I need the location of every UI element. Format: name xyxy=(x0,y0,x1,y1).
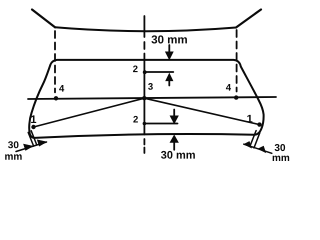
level-2 tick upper xyxy=(144,71,173,73)
label 1 left xyxy=(31,115,36,123)
left corner edge tail lines xyxy=(28,131,36,146)
right dashed pillar projection xyxy=(236,30,238,92)
roof line (top curve) xyxy=(55,27,236,31)
upper dimension up arrow xyxy=(166,74,173,86)
windscreen outline xyxy=(29,60,263,138)
right corner edge tail lines xyxy=(250,131,259,148)
left A-pillar whisker xyxy=(32,10,55,28)
label 4 right xyxy=(226,84,231,91)
point 4 left dot xyxy=(54,96,58,100)
belt line through points 4-3-4 xyxy=(28,97,276,99)
label mm right xyxy=(273,156,290,161)
level-2 lower dot xyxy=(143,122,147,126)
level-2 tick lower xyxy=(144,123,177,125)
label 30 mm lower xyxy=(161,151,195,159)
right A-pillar whisker xyxy=(236,10,261,28)
right corner 30 mm leader arrow xyxy=(244,142,272,154)
upper dimension down arrow xyxy=(166,45,173,59)
left corner 30 mm leader arrow xyxy=(16,140,47,152)
point 4 right dot xyxy=(234,95,238,99)
label 1 right xyxy=(247,115,252,123)
node 3 dot xyxy=(142,96,146,100)
label mm left xyxy=(5,154,22,159)
point 1 right dot xyxy=(257,122,261,126)
point 1 left dot xyxy=(31,125,35,129)
diagonal node 3 to point 1 right xyxy=(144,98,259,124)
label 2 lower xyxy=(133,116,138,123)
label 30 right xyxy=(275,144,285,151)
label 30 mm upper xyxy=(151,35,186,43)
label 2 upper xyxy=(133,65,138,72)
lower dimension down arrow xyxy=(170,110,178,124)
diagonal node 3 to point 1 left xyxy=(34,98,145,127)
lower dimension up arrow xyxy=(170,136,178,150)
label 4 left xyxy=(59,85,64,92)
left dashed pillar projection xyxy=(54,31,56,92)
label 30 left xyxy=(8,141,18,148)
label 3 xyxy=(148,83,153,90)
level-2 upper dot xyxy=(143,70,147,74)
vertical centreline xyxy=(143,16,145,153)
